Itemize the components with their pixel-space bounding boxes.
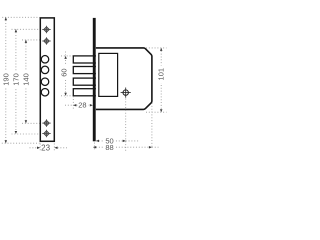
bolt slat 1: [73, 56, 99, 63]
arrow 140 bottom: [25, 120, 28, 123]
dim line 101: [160, 48, 162, 112]
svg-text:170: 170: [11, 73, 20, 86]
arrow 23 right: [54, 147, 57, 150]
inner case rect: [99, 53, 118, 96]
screw hole diamond 2: [42, 37, 51, 45]
dim 140 extension top: [22, 39, 40, 41]
dim line 60: [65, 52, 67, 98]
arrow 190 top: [5, 17, 8, 20]
arrow 28 right: [90, 104, 93, 107]
arrow 140 top: [25, 40, 28, 43]
dim 170 extension bottom: [12, 133, 40, 135]
arrow 23 left: [37, 147, 40, 150]
dim 88 line: [93, 146, 152, 148]
arrow 50 right: [123, 140, 126, 143]
screw hole diamond 1: [42, 26, 51, 34]
bolt slat 4: [73, 89, 99, 96]
svg-text:101: 101: [157, 68, 166, 81]
screw hole diamond 4: [42, 130, 51, 138]
dim 101 ext bottom: [146, 111, 167, 113]
dim 60 ext top: [61, 55, 73, 57]
svg-text:140: 140: [21, 73, 30, 86]
bolt slat 2: [73, 67, 99, 74]
arrow 101 bottom: [160, 109, 163, 112]
dim 23 ext right: [53, 144, 55, 153]
arrow 170 bottom: [15, 131, 18, 134]
bolt circle 2: [41, 66, 49, 74]
svg-text:28: 28: [78, 101, 86, 110]
crosshair extension down: [125, 99, 127, 153]
bolt circle 1: [41, 56, 49, 64]
dim 60 ext bottom: [61, 95, 73, 97]
svg-text:60: 60: [60, 68, 69, 76]
dim 23 ext left: [39, 144, 41, 153]
arrow 101 top: [160, 48, 163, 51]
arrow 50 left: [96, 140, 99, 143]
label masks: [2, 71, 31, 89]
dim 170 extension top: [12, 28, 40, 30]
screw hole diamond 3: [42, 119, 51, 127]
dim line 140: [25, 40, 27, 123]
bolt slat 3: [73, 78, 99, 85]
arrow 170 top: [15, 29, 18, 32]
dim 140 extension bottom: [22, 122, 40, 124]
arrow 60 bottom: [64, 93, 67, 96]
bolt circle 3: [41, 78, 49, 86]
dim 190 extension bottom: [2, 142, 40, 144]
dim 101 ext top: [146, 47, 167, 49]
arrow 60 top: [64, 56, 67, 59]
dim 23 line left: [30, 147, 38, 149]
dim line 170: [15, 29, 17, 134]
svg-text:88: 88: [105, 143, 113, 152]
arrow 88 right: [149, 146, 152, 149]
svg-text:190: 190: [1, 73, 10, 86]
arrow 28 left: [73, 104, 76, 107]
arrow 88 left: [93, 146, 96, 149]
body right ext down: [151, 103, 153, 148]
dim 50 line: [96, 140, 126, 142]
dim 23 line right: [58, 147, 68, 149]
bolt circle 4: [41, 88, 49, 96]
dim line 190: [5, 17, 7, 143]
lock body: [96, 48, 152, 110]
faceplate edge extension down: [93, 143, 95, 151]
dim 28 ext: [72, 96, 74, 110]
faceplate edge view: [93, 18, 96, 141]
faceplate front view: [40, 18, 54, 141]
dim 28 line: [65, 104, 93, 106]
cylinder crosshair: [121, 88, 131, 98]
arrow 190 bottom: [5, 140, 8, 143]
dim 190 extension top: [2, 16, 39, 18]
svg-text:23: 23: [41, 143, 50, 152]
